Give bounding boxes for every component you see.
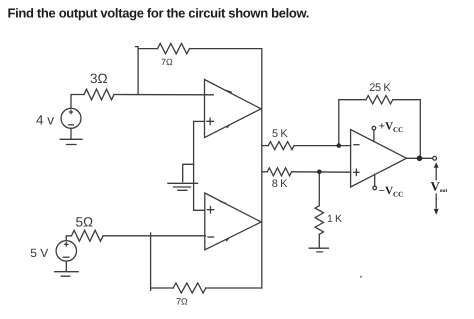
svg-text:5Ω: 5Ω <box>76 215 94 230</box>
svg-text:1 K: 1 K <box>327 213 342 225</box>
svg-text:Find the output voltage for th: Find the output voltage for the circuit … <box>8 6 310 21</box>
svg-text:7Ω: 7Ω <box>161 57 173 67</box>
svg-text:3Ω: 3Ω <box>90 71 108 86</box>
svg-text:7Ω: 7Ω <box>176 297 188 307</box>
svg-text:4 v: 4 v <box>36 112 54 127</box>
svg-text:5 K: 5 K <box>272 128 288 140</box>
svg-text:25 K: 25 K <box>369 82 391 94</box>
svg-text:8 K: 8 K <box>272 178 288 190</box>
svg-text:5 V: 5 V <box>30 246 48 260</box>
